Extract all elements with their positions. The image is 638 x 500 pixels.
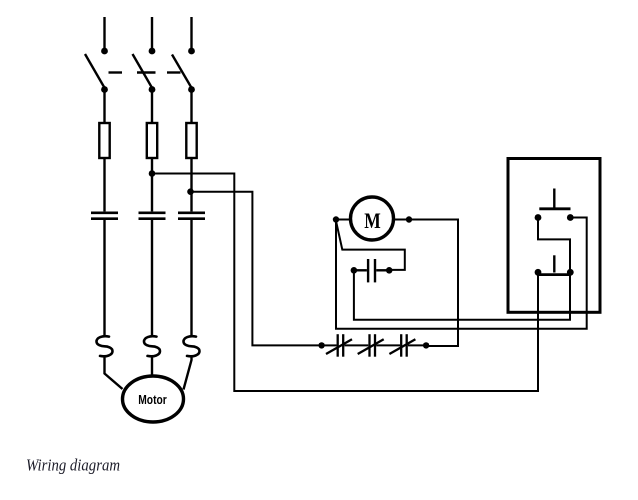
start button left terminal dot: [535, 214, 542, 221]
wire coil left terminal: [336, 219, 350, 221]
stop button actuator stem: [553, 255, 555, 272]
junction dot coil left: [333, 216, 339, 222]
start button NO contact bar: [539, 207, 570, 210]
overload NC contact OL2: [358, 334, 384, 357]
junction dot overload row right: [423, 342, 429, 348]
overload NC contact OL1: [326, 334, 352, 357]
wire L3 contact to overload heater: [190, 220, 192, 336]
wire L2 contact to overload heater: [151, 220, 153, 336]
svg-text:M: M: [364, 208, 381, 233]
wire overload row segment 1: [322, 344, 337, 346]
wire overload row segment 2: [345, 344, 369, 346]
junction dot control tap on L2: [149, 170, 156, 177]
wire L2 supply stub: [151, 17, 153, 51]
switch mechanical linkage dashed line: [109, 71, 181, 73]
holding contact K1 aux (capacitor style): [354, 259, 389, 282]
node L1 switch top dot: [101, 48, 108, 55]
start button actuator stem: [553, 189, 555, 208]
node L3 switch bottom dot: [188, 86, 195, 93]
thermal overload heater element phase L3: [184, 336, 200, 356]
wire coil left down to start button right (via bottom): [336, 218, 587, 329]
wire overload row segment 4: [408, 344, 426, 346]
wire L2 fuse to contactor contact: [151, 158, 153, 211]
junction dot overload row left: [318, 342, 324, 348]
node L2 switch bottom dot: [149, 86, 156, 93]
svg-text:Wiring diagram: Wiring diagram: [26, 456, 120, 475]
fuse F2: [147, 123, 157, 158]
junction dot holding contact left: [351, 267, 358, 274]
node L1 switch bottom dot: [101, 86, 108, 93]
contactor main contact K1 phase L1: [91, 213, 118, 219]
disconnect switch blade phase L1: [85, 54, 106, 90]
caption "Wiring diagram": [26, 456, 120, 475]
control station enclosure box: [508, 159, 600, 313]
wire L3 heater to motor terminal: [184, 356, 192, 390]
junction dot coil right: [406, 216, 412, 222]
wire coil right terminal: [394, 219, 409, 221]
node L3 switch top dot: [188, 48, 195, 55]
wire L3 switch to fuse: [190, 90, 192, 124]
wire L1 heater to motor terminal: [105, 356, 123, 389]
thermal overload heater element phase L1: [97, 336, 113, 356]
fuse F3: [186, 123, 196, 158]
disconnect switch blade phase L3: [172, 55, 193, 90]
disconnect switch blade phase L2: [133, 54, 154, 90]
junction dot holding contact right: [386, 267, 393, 274]
wire control tap L2 to stop button (down and along bottom): [152, 174, 538, 392]
wire start button left to stop button right: [538, 218, 570, 273]
coil label "M": [364, 208, 381, 233]
svg-text:Motor: Motor: [138, 392, 167, 407]
overload NC contact OL3: [389, 334, 415, 357]
stop button right terminal dot: [567, 269, 574, 276]
wire L2 switch to fuse: [151, 90, 153, 124]
wire L3 fuse to contactor contact: [190, 158, 192, 211]
wire L1 supply stub: [103, 17, 105, 51]
wire L1 switch to fuse: [103, 90, 105, 124]
motor label "Motor": [138, 392, 167, 407]
wire control tap L3 to overload contacts: [191, 192, 322, 346]
wire coil left to holding contact right (loop): [336, 221, 405, 270]
wire coil right to overload NC contacts: [409, 220, 458, 347]
node L2 switch top dot: [149, 48, 156, 55]
wire L1 contact to overload heater: [103, 220, 105, 336]
thermal overload heater element phase L2: [144, 336, 160, 356]
wire overload row segment 3: [376, 344, 400, 346]
contactor main contact K1 phase L2: [139, 213, 166, 219]
wire holding contact left to start/stop junction: [354, 270, 570, 320]
wire L3 supply stub: [190, 17, 192, 51]
fuse F1: [99, 123, 109, 158]
wire L2 heater to motor terminal: [151, 356, 153, 377]
stop button left terminal dot: [535, 269, 542, 276]
contactor main contact K1 phase L3: [178, 213, 205, 219]
junction dot control tap on L3: [187, 188, 194, 195]
motor M1 body: [123, 376, 184, 422]
start button right terminal dot: [567, 214, 574, 221]
wire L1 fuse to contactor contact: [103, 158, 105, 211]
contactor coil M circle: [351, 197, 394, 240]
stop button NC contact bar: [539, 273, 571, 276]
